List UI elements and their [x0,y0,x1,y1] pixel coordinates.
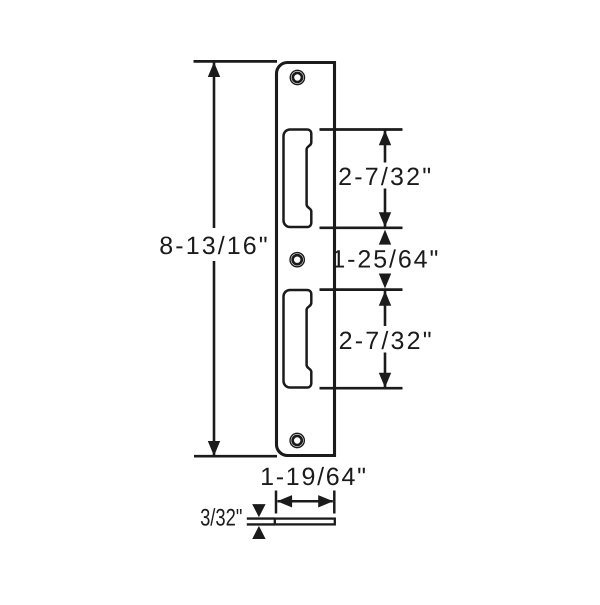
1-25/64 dimension arrowhead up (below middle extension line) [379,230,391,245]
1-25/64 dimension arrowhead down (above lower extension line) [379,274,391,289]
svg-text:8-13/16": 8-13/16" [159,232,269,260]
screw hole top [290,70,304,84]
upper slot dimension: extension line at slot top [320,128,403,131]
overall-height arrowhead down [208,441,220,456]
label 3/32 [200,505,242,532]
extension line between slots (lower) [320,288,403,291]
lower 2-7/32 arrowhead down [379,373,391,388]
extension line between slots (upper) [320,226,403,229]
lower slot dimension: extension line at slot bottom [320,387,403,390]
strike plate outline [277,63,335,456]
thickness arrowhead down (above edge view) [252,504,265,517]
lower 2-7/32 dimension line (broken for label) [384,291,387,326]
upper 2-7/32 arrowhead up [379,130,391,145]
svg-text:2-7/32": 2-7/32" [339,327,434,355]
plate edge side view (thickness) [247,519,335,525]
latch slot upper [284,130,312,228]
svg-text:1-19/64": 1-19/64" [260,463,368,491]
svg-text:1-25/64": 1-25/64" [331,246,440,274]
width arrowhead right [318,495,333,507]
thickness arrowhead up (below edge view) [252,526,265,539]
width arrowhead left [277,495,292,507]
width dimension line [278,500,333,503]
latch slot lower [284,290,312,388]
overall-height arrowhead up [208,62,220,77]
overall-height dimension line (broken for label) [213,63,216,229]
lower 2-7/32 arrowhead up [379,291,391,306]
upper 2-7/32 arrowhead down [379,212,391,227]
width dimension: right extension tick [333,491,336,514]
overall-height dimension: bottom extension line [194,455,277,458]
svg-text:2-7/32": 2-7/32" [338,163,433,191]
upper 2-7/32 dimension line (broken for label) [384,131,387,163]
width dimension: left extension tick [275,491,278,514]
svg-text:3/32": 3/32" [200,505,242,532]
screw hole bottom [290,433,304,447]
screw hole middle [290,253,304,267]
overall-height dimension: top extension line [194,60,278,63]
